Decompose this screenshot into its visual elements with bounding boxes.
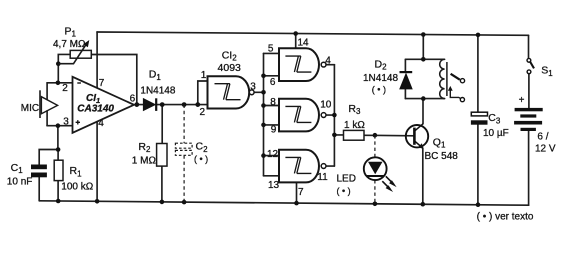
wire mic bottom lead xyxy=(46,111,48,126)
svg-text:3: 3 xyxy=(63,117,69,128)
svg-text:C3: C3 xyxy=(488,112,501,125)
wire pin9 tap xyxy=(264,124,280,126)
svg-text:6: 6 xyxy=(270,77,276,88)
svg-text:CA3140: CA3140 xyxy=(77,103,114,114)
wire pin12 tap xyxy=(264,155,280,157)
svg-text:100 kΩ: 100 kΩ xyxy=(61,181,93,192)
wire R3 to Q1 base xyxy=(364,134,414,137)
svg-text:MIC: MIC xyxy=(21,103,39,114)
op-amp minus sign xyxy=(77,82,81,84)
svg-text:7: 7 xyxy=(99,78,105,89)
wire R2 branch xyxy=(161,105,163,202)
wire gate4 output xyxy=(326,165,334,167)
svg-text:BC 548: BC 548 xyxy=(425,151,459,162)
wire D2 leads xyxy=(404,59,406,98)
svg-text:3: 3 xyxy=(250,82,256,93)
wire Q1 emitter drop xyxy=(422,148,424,204)
svg-text:10 µF: 10 µF xyxy=(483,128,509,139)
LED optional xyxy=(364,135,397,204)
svg-text:7: 7 xyxy=(298,187,304,198)
wire bottom ground rail xyxy=(39,201,529,205)
svg-text:R3: R3 xyxy=(348,103,361,116)
wire input bus xyxy=(263,53,265,175)
svg-text:( • ): ( • ) xyxy=(372,85,386,95)
wire gate1 output to bus xyxy=(254,91,263,93)
svg-text:2: 2 xyxy=(200,107,206,118)
resistor R2 1M xyxy=(157,144,167,167)
switch S1 xyxy=(527,58,534,73)
svg-text:+: + xyxy=(519,95,525,106)
wire battery to rail xyxy=(528,131,530,205)
svg-text:12: 12 xyxy=(267,149,279,160)
wire op-amp pin4 riser xyxy=(96,122,98,201)
wire pin7 drop xyxy=(296,182,298,203)
svg-text:( • ): ( • ) xyxy=(337,186,351,196)
nand gate U2a (pins 1,2,3) xyxy=(208,76,255,108)
nand gate U2c (pins 8,9,10) xyxy=(279,99,326,132)
wire Q1 collector riser xyxy=(422,99,424,124)
svg-text:CI2: CI2 xyxy=(222,49,238,62)
wire C3 riser xyxy=(477,35,479,112)
svg-text:2: 2 xyxy=(62,83,68,94)
microphone MIC xyxy=(40,90,58,118)
svg-text:6: 6 xyxy=(130,94,136,105)
wire relay box top edge xyxy=(405,58,444,60)
svg-text:Q1: Q1 xyxy=(433,136,446,149)
wire pin8 tap xyxy=(264,105,280,107)
svg-text:14: 14 xyxy=(297,38,309,49)
wire gate1 input riser xyxy=(198,81,208,105)
svg-text:( • ): ( • ) xyxy=(194,154,208,164)
resistor R1 100k xyxy=(54,160,63,180)
svg-text:10: 10 xyxy=(320,100,332,111)
svg-text:8: 8 xyxy=(270,97,276,108)
svg-text:10 nF: 10 nF xyxy=(7,176,33,187)
diode D2 1N4148 across relay xyxy=(400,72,413,89)
transistor Q1 BC548 xyxy=(406,124,428,149)
wire mic top lead xyxy=(46,83,48,100)
wire pin13 tap xyxy=(264,175,280,177)
wire pin14 riser xyxy=(295,34,297,49)
wire signal line D1 area xyxy=(137,104,208,106)
svg-text:6 /: 6 / xyxy=(537,131,548,142)
svg-text:1N4148: 1N4148 xyxy=(140,85,175,96)
resistor R3 1k xyxy=(344,130,365,140)
relay contact xyxy=(448,74,465,102)
svg-text:1 kΩ: 1 kΩ xyxy=(344,120,365,131)
svg-text:R2: R2 xyxy=(138,141,151,154)
svg-text:11: 11 xyxy=(317,172,328,183)
capacitor C3 10uF electrolytic xyxy=(471,112,488,125)
svg-text:4093: 4093 xyxy=(218,62,242,74)
wire bus to R3 xyxy=(334,134,343,136)
battery B1 6/12V xyxy=(514,108,543,131)
svg-text:12 V: 12 V xyxy=(535,143,556,154)
wire node to R1 xyxy=(57,150,59,202)
wire pin6 tap xyxy=(264,75,280,77)
wire gate3 output xyxy=(326,114,334,116)
svg-text:P1: P1 xyxy=(65,25,77,38)
capacitor C1 10nF xyxy=(31,165,47,178)
wire feedback from P1 to pin6 xyxy=(91,55,137,105)
wire C3 drop xyxy=(477,125,479,205)
svg-text:4,7 MΩ: 4,7 MΩ xyxy=(53,39,86,50)
svg-text:LED: LED xyxy=(337,174,356,185)
svg-text:1N4148: 1N4148 xyxy=(363,73,398,84)
svg-text:S1: S1 xyxy=(541,65,553,78)
op-amp plus sign xyxy=(76,120,80,124)
svg-text:1: 1 xyxy=(201,70,207,81)
svg-text:R1: R1 xyxy=(70,165,83,178)
wire output bus xyxy=(333,65,335,166)
diode D1 1N4148 xyxy=(143,98,156,111)
potentiometer P1 xyxy=(58,40,91,64)
wire top supply rail xyxy=(97,32,529,35)
svg-text:( • ) ver texto: ( • ) ver texto xyxy=(477,212,534,223)
wire gate2 output xyxy=(326,64,334,66)
svg-text:5: 5 xyxy=(268,43,274,54)
svg-text:C2: C2 xyxy=(196,141,209,154)
wire relay top to rail xyxy=(422,35,424,60)
capacitor C2 optional dashed xyxy=(175,105,192,203)
svg-text:D1: D1 xyxy=(149,69,162,82)
nand gate U2d (pins 12,13,11) xyxy=(279,150,326,183)
svg-text:D2: D2 xyxy=(375,58,388,71)
wire pin3 node down xyxy=(57,126,59,150)
relay coil K1 xyxy=(440,59,447,98)
wire node to C1 xyxy=(39,150,58,201)
wire S1 from rail xyxy=(528,35,530,58)
wire S1 to battery xyxy=(528,74,530,108)
svg-text:4: 4 xyxy=(325,56,331,67)
wire mic to pin3 xyxy=(47,125,72,127)
wire relay box bottom edge xyxy=(405,98,444,100)
svg-text:4: 4 xyxy=(98,118,104,129)
svg-text:9: 9 xyxy=(271,124,277,135)
nand gate U2b (pins 5,6,4) xyxy=(279,48,326,81)
wire mic to pin2 xyxy=(47,82,72,84)
op-amp U1 CI1 CA3140 xyxy=(73,77,135,133)
wire pin5 tap xyxy=(264,52,280,54)
svg-text:C1: C1 xyxy=(11,162,24,175)
wire P1 left terminal xyxy=(58,54,70,82)
wire op-amp pin7 riser xyxy=(96,32,98,88)
svg-text:13: 13 xyxy=(268,180,280,191)
svg-text:1 MΩ: 1 MΩ xyxy=(132,156,157,167)
